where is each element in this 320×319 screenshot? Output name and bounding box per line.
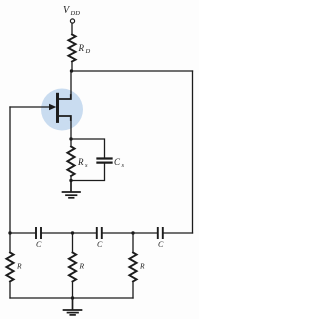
wire feedback rail top — [10, 232, 193, 234]
node rail junction C — [131, 231, 134, 234]
ground (bottom) — [64, 298, 82, 315]
node VDD terminal — [70, 19, 74, 23]
wire Cs bottom — [71, 164, 105, 181]
resistor R1 — [6, 253, 13, 282]
ground (source bypass) — [63, 181, 81, 198]
svg-text:R: R — [78, 43, 85, 53]
wire source down — [70, 116, 72, 139]
svg-text:D: D — [85, 48, 91, 55]
svg-text:R: R — [79, 262, 85, 271]
wire R2 bottom lead — [72, 282, 74, 299]
svg-text:R: R — [139, 262, 145, 271]
resistor R2 — [69, 253, 76, 282]
node rail junction A — [8, 231, 11, 234]
svg-text:DD: DD — [70, 10, 81, 17]
resistor RD — [68, 35, 75, 62]
wire bottom rail — [10, 297, 133, 299]
wire Rs leads — [70, 139, 72, 181]
wire gate to left side down — [9, 107, 11, 233]
svg-text:C: C — [114, 157, 121, 167]
label Cs — [114, 157, 125, 169]
node rail junction B — [71, 231, 74, 234]
label VDD — [63, 5, 80, 17]
resistor Rs — [67, 147, 74, 177]
JFET highlight circle — [41, 89, 83, 131]
node bottom rail junction — [71, 296, 74, 299]
svg-text:C: C — [36, 240, 42, 249]
resistor R3 — [129, 253, 136, 282]
capacitor C (third) — [158, 228, 163, 238]
wire R1 bottom lead — [9, 282, 11, 299]
label RD — [78, 43, 91, 55]
wire R3 bottom lead — [132, 282, 134, 299]
node drain junction — [70, 69, 73, 72]
wire drain node to transistor drain — [70, 71, 72, 99]
svg-text:R: R — [16, 262, 22, 271]
capacitor C (first) — [36, 228, 41, 238]
capacitor Cs — [98, 159, 112, 163]
wire RD to drain node — [71, 62, 73, 72]
capacitor C (second) — [97, 228, 102, 238]
node Rs-Cs bottom junction — [69, 179, 72, 182]
label Rs — [77, 157, 88, 169]
svg-text:C: C — [158, 240, 164, 249]
node source junction — [69, 137, 72, 140]
wire right side down — [192, 71, 194, 233]
wire R1 top lead — [9, 233, 11, 253]
svg-text:s: s — [122, 162, 125, 169]
svg-text:C: C — [97, 240, 103, 249]
wire VDD to RD — [71, 24, 73, 35]
svg-text:R: R — [77, 157, 84, 167]
svg-text:s: s — [85, 162, 88, 169]
wire R2 top lead — [72, 233, 74, 253]
transistor Q1 (JFET) — [10, 94, 71, 121]
wire source node to Cs — [71, 139, 105, 157]
wire R3 top lead — [132, 233, 134, 253]
wire drain node to right — [72, 70, 193, 72]
